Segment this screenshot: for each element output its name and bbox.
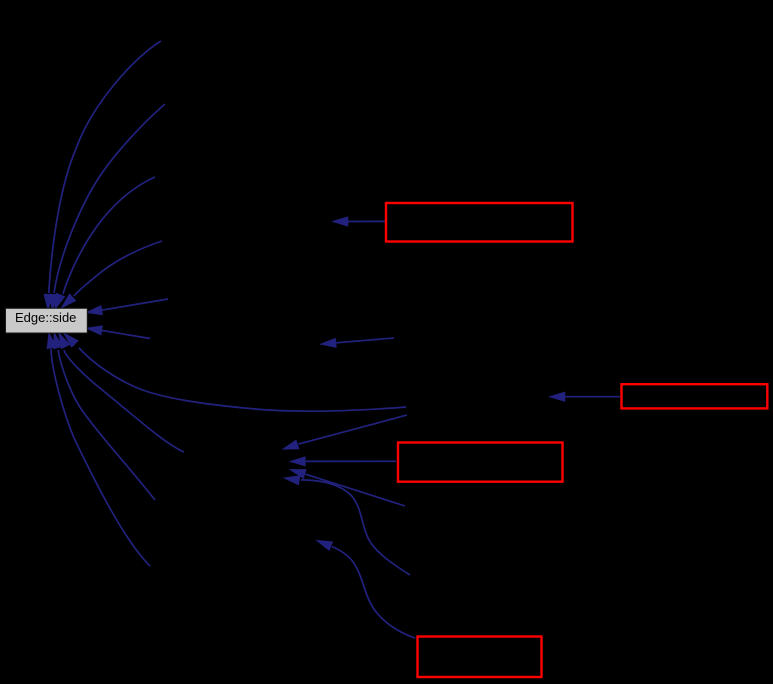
- node red box 4 (hidden label): [418, 637, 542, 678]
- wire Z S-curve from red box 4 to hidden node at (317,542): [318, 541, 415, 638]
- wire from red box 2 to hidden node at (551,397): [551, 393, 620, 401]
- wire B4 curve from hidden node at (150,566) to Edge::side bottom: [48, 334, 150, 566]
- node red box 1 (hidden label): [386, 203, 573, 242]
- wire Y3 from hidden node at (405,506) to hidden node Y: [292, 470, 406, 506]
- node Edge::side (current node, grey box): [6, 308, 88, 333]
- wire Y2 from red box 3 to hidden node Y: [291, 457, 396, 465]
- wire from red box 1 to hidden node at (333,221): [334, 218, 385, 226]
- wire A from hidden node at (394,338) to hidden node at (322,344): [322, 338, 394, 347]
- node red box 3 (hidden label): [398, 443, 563, 482]
- wire T1 curve from hidden node at (161,41) to Edge::side top: [45, 41, 161, 308]
- node red box 2 (hidden label): [622, 384, 768, 408]
- svg-text:Edge::side: Edge::side: [15, 310, 76, 325]
- wire Y4 S-curve from hidden node at (410,575) to hidden node Y: [286, 476, 411, 575]
- wire T3 curve from hidden node at (155,177) to Edge::side top: [56, 177, 156, 308]
- wire T4 curve from hidden node at (162,241) to Edge::side top: [63, 241, 163, 307]
- wire R1 from hidden node at (168,299) to Edge::side right: [88, 299, 168, 314]
- wire T2 curve from hidden node at (165,104) to Edge::side top: [50, 104, 165, 308]
- wire B3 curve from hidden node at (155,500) to Edge::side bottom: [54, 334, 155, 500]
- wire B2 curve from hidden node at (184,452) to Edge::side bottom: [60, 334, 185, 452]
- wire B1 long sweep from hidden node at (406,407) to Edge::side bottom: [65, 334, 406, 411]
- wire Y1 from hidden node at (407,415) to hidden node Y: [284, 415, 407, 449]
- wire R2 from hidden node at (150,338) to Edge::side right: [88, 326, 150, 338]
